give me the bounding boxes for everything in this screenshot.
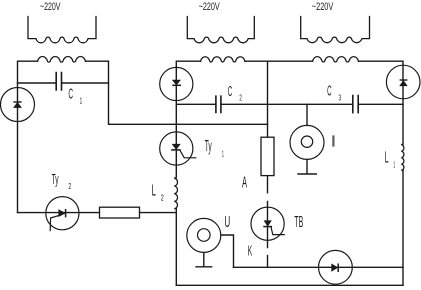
wire C2/C3 row (176, 103, 403, 105)
wire resistor to node at x176 (140, 212, 177, 214)
svg-text:2: 2 (68, 182, 71, 191)
svg-text:K: K (248, 243, 252, 260)
svg-text:2: 2 (161, 194, 164, 203)
wire right vertical upper (T3 right lead) (359, 61, 404, 144)
transformer T1 primary winding (28, 17, 96, 43)
capacitor C2 (216, 96, 221, 112)
wire middle vertical upper (T2 left lead through D2, Ty1) (176, 61, 200, 177)
wire C1 branch right (62, 82, 109, 84)
resistor A box (261, 137, 274, 175)
diode D4 symbol (400, 80, 407, 86)
thyristor Ty2 symbol (50, 210, 65, 231)
inductor L1 coil (401, 144, 404, 170)
svg-text:3: 3 (339, 94, 342, 103)
wire node column x267 upper (267, 61, 269, 137)
diode D1 circle (1, 88, 35, 122)
thyristor Ty1 circle (160, 132, 193, 165)
transformer T3 primary winding (301, 17, 370, 43)
svg-text:L: L (385, 150, 389, 167)
svg-text:1: 1 (80, 97, 83, 106)
diode D2 symbol (173, 80, 181, 85)
svg-text:C: C (327, 83, 331, 99)
wire T2 secondary right lead to T3 secondary left lead (245, 60, 313, 62)
ammeter I inner circle (301, 136, 312, 147)
diode D3 symbol (332, 264, 339, 271)
svg-text:Ty: Ty (205, 138, 212, 155)
diode D3 circle (319, 250, 353, 284)
wire T1 secondary right lead down and across to node at x267 (86, 61, 268, 124)
svg-text:C: C (228, 84, 233, 100)
svg-text:~220V: ~220V (199, 1, 221, 13)
diode D4 circle (386, 65, 420, 99)
thyristor TB circle (251, 207, 284, 240)
svg-text:U: U (225, 214, 231, 231)
thyristor Ty1 symbol (172, 144, 196, 158)
ammeter I top lead (306, 104, 308, 125)
resistor R (Ty2 branch) (100, 207, 140, 218)
transformer T1 secondary winding (38, 57, 86, 63)
wire Ty2 row (left part through circle) (18, 212, 100, 214)
svg-text:1: 1 (393, 160, 395, 169)
wire T1 secondary left lead down to Ty2 row (18, 61, 38, 212)
transformer T2 secondary winding (201, 57, 245, 62)
svg-text:Ty: Ty (52, 171, 59, 188)
diode D2 circle (160, 67, 193, 100)
svg-text:2: 2 (239, 94, 242, 103)
wire bottom of lower box (176, 284, 403, 286)
svg-text:L: L (152, 183, 156, 200)
svg-text:~220V: ~220V (312, 1, 334, 13)
wire right edge of lower box (402, 170, 404, 285)
voltmeter U ground terminal (196, 253, 212, 267)
wire resistor A lower lead (dashed gap) (267, 176, 269, 248)
capacitor C1 (56, 73, 61, 91)
label I (332, 135, 334, 146)
wire bottom inner rail (234, 266, 404, 268)
capacitor C3 (353, 96, 358, 113)
svg-text:TB: TB (294, 214, 303, 231)
wire U meter to bottom rail (221, 235, 234, 267)
transformer T3 secondary winding (313, 57, 359, 62)
ammeter I circle (290, 125, 324, 159)
svg-text:1: 1 (222, 149, 224, 158)
wire left edge of lower box down to bottom (175, 209, 177, 286)
svg-text:~220V: ~220V (40, 1, 61, 13)
switch K lower lead (267, 256, 269, 268)
thyristor Ty2 circle (46, 197, 79, 230)
thyristor TB symbol (264, 221, 284, 235)
voltmeter U inner circle (198, 229, 211, 242)
inductor L2 coil (174, 178, 177, 209)
svg-text:A: A (242, 175, 247, 192)
diode D1 symbol (14, 102, 21, 108)
voltmeter U circle (187, 218, 221, 252)
wire C1 branch left (18, 82, 57, 84)
svg-text:C: C (68, 87, 73, 103)
ammeter I ground terminal (298, 159, 316, 174)
transformer T2 primary winding (187, 17, 254, 43)
